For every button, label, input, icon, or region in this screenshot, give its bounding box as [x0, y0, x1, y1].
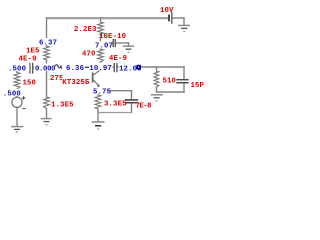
capacitor C5 load 15P: [176, 80, 188, 83]
wire load bottom: [157, 91, 185, 93]
wire bias column middle: [46, 60, 48, 97]
svg-text:4E-9: 4E-9: [109, 55, 127, 63]
transistor Q1 KT325B: [93, 70, 101, 86]
wire collector column middle: [100, 34, 102, 49]
wire emitter cap loop: [98, 90, 132, 92]
svg-text:.500: .500: [8, 65, 26, 73]
wire load cap column: [183, 67, 185, 79]
svg-text:4E-9: 4E-9: [19, 56, 37, 64]
wire bypass cap tap: [101, 42, 113, 44]
svg-text:5.75: 5.75: [93, 89, 111, 97]
wire battery right to corner: [172, 17, 184, 19]
node voltage 12.00: [119, 64, 142, 74]
svg-text:7E-8: 7E-8: [136, 102, 152, 110]
svg-text:6.37: 6.37: [39, 39, 57, 47]
svg-text:1E5: 1E5: [26, 48, 40, 56]
svg-text:.500: .500: [3, 90, 21, 98]
ground top right: [178, 25, 190, 31]
ground source: [11, 127, 23, 132]
ground emitter: [92, 122, 105, 129]
ground load: [151, 95, 163, 101]
node voltage .500 lower: [3, 89, 25, 99]
svg-text:2.2E3: 2.2E3: [74, 26, 97, 34]
wire output row: [101, 66, 114, 68]
resistor R4 470: [98, 49, 104, 62]
node marker square: [137, 65, 141, 70]
node voltage 5.75: [93, 87, 112, 96]
wire emitter column: [97, 87, 99, 95]
svg-text:10V: 10V: [160, 7, 174, 15]
svg-text:15P: 15P: [191, 82, 205, 90]
node voltage 10.97: [89, 63, 113, 73]
wire source column: [16, 89, 18, 97]
capacitor C2 bypass 10E-10: [113, 39, 115, 47]
wire collector column to transistor: [100, 62, 102, 70]
capacitor C3 output coupling: [114, 63, 117, 72]
source V2 AC: [12, 97, 22, 107]
capacitor C1 input coupling: [30, 63, 33, 74]
wire input row: [17, 67, 29, 69]
svg-text:150: 150: [23, 80, 37, 88]
node voltage 6.37: [39, 38, 59, 47]
svg-text:470: 470: [82, 50, 96, 58]
wire bias column top: [46, 18, 48, 46]
resistor R1 1E5 bias upper: [44, 46, 50, 60]
resistor R6 510 load: [154, 71, 159, 87]
resistor R2 1.3E5 bias lower: [44, 97, 50, 109]
node voltage 0.000: [34, 64, 55, 74]
battery V1 10V: [169, 12, 172, 24]
AC wave marker: [55, 65, 62, 69]
svg-text:6.36: 6.36: [66, 65, 84, 73]
wire bias column bottom: [46, 109, 48, 119]
resistor R3 2.2E3 collector: [98, 22, 104, 34]
svg-text:10.97: 10.97: [89, 65, 112, 73]
svg-text:510: 510: [163, 77, 177, 85]
svg-text:10E-10: 10E-10: [99, 33, 126, 41]
wire collector column top: [100, 18, 102, 22]
transistor model KT325B: [62, 78, 90, 87]
dash between 6.36 and 10.97: [85, 66, 89, 68]
capacitor C4 emitter 7E-8: [125, 100, 138, 103]
svg-text:0.000: 0.000: [35, 65, 55, 73]
resistor R5 3.3E5 emitter: [95, 95, 101, 109]
value 275 beta: [50, 74, 64, 83]
value 3.3E5: [104, 99, 127, 108]
node voltage .500 top: [7, 64, 30, 74]
value 510: [162, 76, 176, 85]
ground bias column: [41, 119, 52, 125]
node voltage 7.07: [95, 41, 114, 50]
ground bypass cap: [123, 46, 134, 52]
svg-text:3.3E5: 3.3E5: [104, 101, 127, 109]
svg-text:7.07: 7.07: [95, 43, 113, 51]
resistor R7 150 source: [14, 73, 20, 90]
svg-text:1.3E5: 1.3E5: [51, 101, 74, 109]
svg-text:КТ325Б: КТ325Б: [62, 79, 90, 87]
wire top rail: [47, 17, 168, 19]
node voltage 6.36: [66, 63, 85, 73]
